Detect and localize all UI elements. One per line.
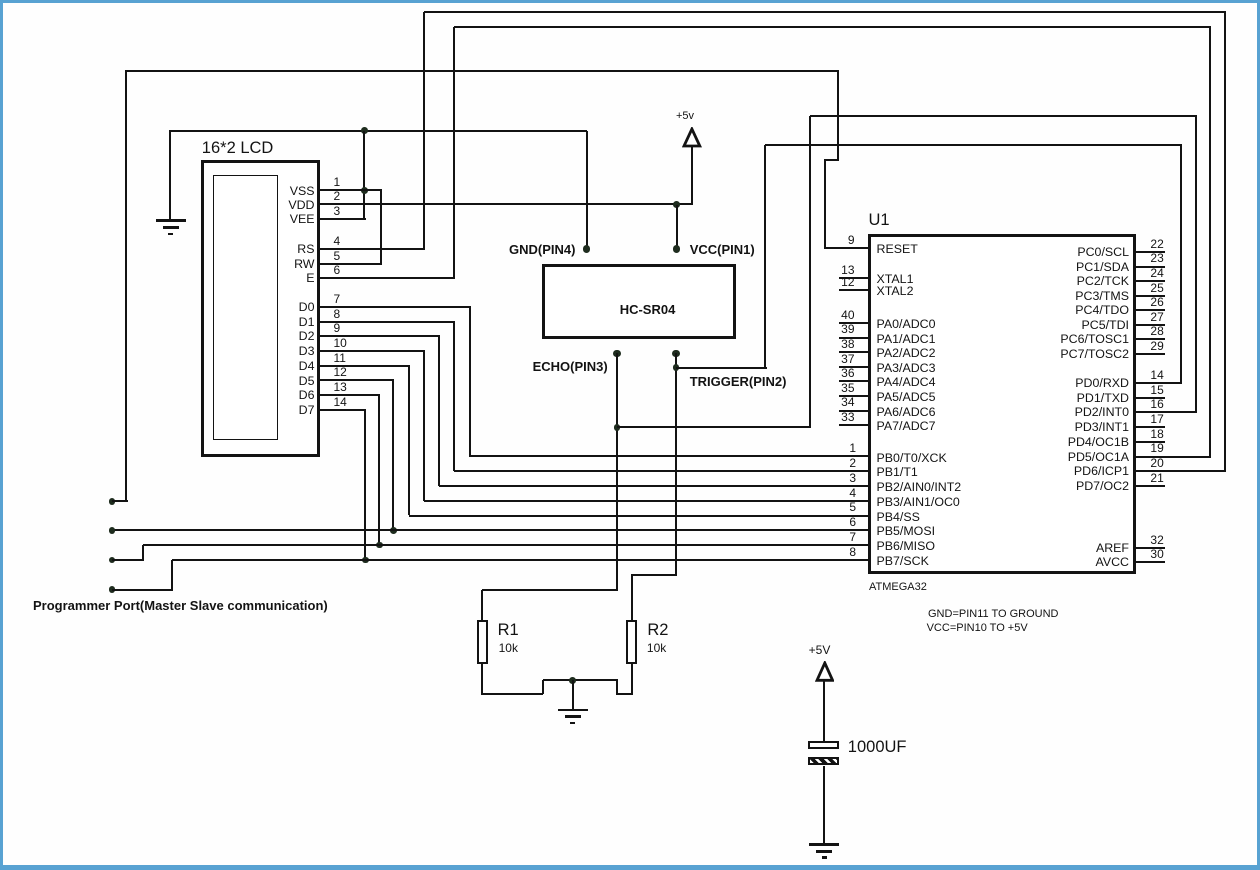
wire +5V stem (823, 681, 826, 741)
LCD pin number 14 (334, 401, 347, 403)
node GND(PIN4) terminal (583, 245, 590, 252)
LCD pin label D2 (299, 335, 315, 337)
wire RESET net top horizontal (125, 70, 838, 73)
wire MISO step up (142, 545, 145, 560)
LCD display window (213, 175, 278, 440)
label Programmer Port (33, 605, 328, 607)
wire SCK step up (171, 560, 174, 590)
pin label PB3/AIN1/OC0 (877, 501, 960, 503)
label TRIGGER(PIN2) (690, 381, 787, 383)
pin number 15 (1150, 389, 1163, 391)
pin number 7 (849, 536, 856, 538)
label HC-SR04 (620, 309, 676, 311)
wire RESET net drop (837, 71, 840, 160)
capacitor 1000UF top plate (808, 741, 840, 749)
wire E vertical up (453, 27, 456, 278)
LCD pin number 12 (334, 371, 347, 373)
pin 34 PA6/ADC6 stub (839, 410, 870, 413)
pin label PA0/ADC0 (877, 323, 936, 325)
LCD pin number 10 (334, 342, 347, 344)
pin label PD3/INT1 (1075, 426, 1129, 428)
wire ECHO to R1 horizontal (482, 589, 618, 592)
value R1 10k (499, 647, 518, 649)
pin label PA3/ADC3 (877, 367, 936, 369)
wire D1 vertical (453, 322, 456, 472)
wire LCD pin 3 VEE stub (320, 218, 365, 221)
LCD pin number 5 (334, 255, 341, 257)
wire ECHO vertical up (809, 116, 812, 427)
LCD pin label D4 (299, 365, 315, 367)
pin number 12 (841, 281, 854, 283)
LCD pin number 8 (334, 313, 341, 315)
wire step down right (616, 680, 619, 695)
wire PB5/MOSI horizontal (112, 529, 870, 532)
wire programmer SCK stub (112, 589, 173, 592)
pin label PA4/ADC4 (877, 381, 936, 383)
LCD pin label D3 (299, 350, 315, 352)
pin label PA1/ADC1 (877, 338, 936, 340)
pin label PC0/SCL (1077, 251, 1129, 253)
pin 25 PC3/TMS stub (1134, 295, 1165, 298)
junction D5 / PB5 (390, 527, 397, 534)
wire right vertical to PD6 (1224, 12, 1227, 471)
pin number 9 (848, 239, 855, 241)
pin number 20 (1150, 462, 1163, 464)
wire R1 bottom lead (481, 664, 484, 695)
pin label PD1/TXD (1077, 397, 1129, 399)
LCD pin number 6 (334, 269, 341, 271)
power symbol +5v arrow head (682, 127, 702, 149)
pin label PB2/AIN0/INT2 (877, 486, 962, 488)
pin number 39 (841, 328, 854, 330)
wire D5 vertical (392, 381, 395, 531)
pin number 26 (1150, 301, 1163, 303)
pin number 23 (1150, 257, 1163, 259)
wire PB6/MISO horizontal (143, 544, 870, 547)
pin label PD6/ICP1 (1074, 470, 1129, 472)
pin label PB6/MISO (877, 545, 936, 547)
pin label XTAL2 (877, 290, 914, 292)
pin 21 PD7/OC2 stub (1134, 485, 1165, 488)
wire PD0/RXD pin 14 (1134, 382, 1182, 385)
capacitor 1000UF bottom plate (polarized) (808, 757, 840, 766)
wire R1 top lead (481, 590, 484, 620)
label ATMEGA32 (869, 586, 927, 588)
pin 26 PC4/TDO stub (1134, 309, 1165, 312)
value R2 10k (647, 647, 666, 649)
wire LCD D2 stub (320, 335, 440, 338)
LCD pin label E (306, 277, 314, 279)
wire LCD D6 stub (320, 394, 380, 397)
microcontroller U1 ATMEGA32 box (868, 234, 1136, 575)
pin label PA7/ADC7 (877, 425, 936, 427)
wire E top horizontal (454, 26, 1212, 29)
pin 37 PA3/ADC3 stub (839, 366, 870, 369)
power symbol +5V arrow head (815, 661, 835, 683)
pin 32 AREF stub (1134, 547, 1165, 550)
wire programmer MISO stub (112, 559, 144, 562)
pin number 6 (849, 521, 856, 523)
pin number 8 (849, 551, 856, 553)
wire D3 vertical (423, 351, 426, 501)
wire LCD pin 4 RS stub (320, 248, 425, 251)
pin number 5 (849, 506, 856, 508)
pin label PA5/ADC5 (877, 396, 936, 398)
LCD pin number 3 (334, 210, 341, 212)
wire TRIGGER vertical up (764, 145, 767, 368)
pin label PC7/TOSC2 (1060, 353, 1129, 355)
LCD pin label D6 (299, 394, 315, 396)
LCD pin number 9 (334, 327, 341, 329)
pin number 34 (841, 401, 854, 403)
pin label PD5/OC1A (1068, 456, 1129, 458)
junction ECHO / PD2 branch (614, 424, 621, 431)
junction programmer port MISO (109, 557, 116, 564)
LCD pin label VEE (290, 218, 315, 220)
resistor R2 body (626, 620, 637, 664)
pin 15 PD1/TXD stub (1134, 397, 1165, 400)
node TRIGGER(PIN2) terminal (672, 350, 679, 357)
pin 28 PC6/TOSC1 stub (1134, 338, 1165, 341)
pin label PC4/TDO (1075, 309, 1129, 311)
node VCC(PIN1) terminal (673, 245, 680, 252)
pin label PB1/T1 (877, 471, 918, 473)
pin label PD0/RXD (1075, 382, 1129, 384)
wire LCD ground horizontal (169, 130, 586, 133)
ground symbol (LCD) (0, 0, 1, 1)
wire right vertical to PD2 (1195, 116, 1198, 412)
wire D4 vertical (408, 366, 411, 516)
label +5v (676, 115, 694, 117)
wire D3 to PB horizontal (424, 500, 870, 503)
label 16*2 LCD (202, 147, 274, 149)
pin number 30 (1150, 553, 1163, 555)
wire VSS to RW vertical (380, 191, 383, 264)
pin 17 PD3/INT1 stub (1134, 426, 1165, 429)
pin 30 AVCC stub (1134, 561, 1165, 564)
pin label PC6/TOSC1 (1060, 338, 1129, 340)
junction TRIGGER / PD0 branch (673, 364, 680, 371)
pin label PA2/ADC2 (877, 352, 936, 354)
wire PB7/SCK horizontal (172, 559, 870, 562)
junction VSS pin 1 (361, 187, 368, 194)
LCD pin label RS (297, 248, 314, 250)
wire LCD D7 stub (320, 409, 366, 412)
wire LCD pin 5 RW stub (320, 263, 382, 266)
wire RESET net lower drop (824, 160, 827, 250)
pin number 37 (841, 358, 854, 360)
pin number 19 (1150, 447, 1163, 449)
pin label PC3/TMS (1075, 295, 1129, 297)
node ECHO(PIN3) terminal (613, 350, 620, 357)
pin number 35 (841, 387, 854, 389)
LCD pin number 7 (334, 298, 341, 300)
wire LCD D3 stub (320, 350, 425, 353)
pin 35 PA5/ADC5 stub (839, 395, 870, 398)
junction programmer port SCK (109, 586, 116, 593)
junction D7 / PB7 (362, 557, 369, 564)
LCD pin label RW (294, 263, 314, 265)
LCD pin label VDD (288, 204, 314, 206)
label +5V (809, 649, 831, 651)
junction programmer port pin (RESET net) (109, 498, 116, 505)
LCD 16*2 module box (201, 160, 321, 457)
wire RS vertical up (423, 12, 426, 249)
pin 29 PC7/TOSC2 stub (1134, 353, 1165, 356)
pin number 13 (841, 269, 854, 271)
junction R1/R2 ground (569, 677, 576, 684)
pin 39 PA1/ADC1 stub (839, 337, 870, 340)
wire D2 vertical (438, 336, 441, 486)
wire D7 vertical (364, 410, 367, 560)
pin label PB4/SS (877, 516, 920, 518)
pin label PD7/OC2 (1076, 485, 1129, 487)
wire TRIGGER top horizontal (765, 144, 1182, 147)
wire R2 top lead (631, 575, 634, 620)
pin number 36 (841, 372, 854, 374)
wire R1 bottom horizontal (481, 693, 542, 696)
pin label PC5/TDI (1081, 324, 1129, 326)
LCD pin label D7 (299, 409, 315, 411)
junction ground / VSS branch (361, 127, 368, 134)
wire RESET net jog (824, 159, 839, 162)
wire PD6/ICP1 pin 20 (1134, 470, 1226, 473)
junction VDD / VCC branch (673, 201, 680, 208)
wire programmer RESET stub (112, 500, 128, 503)
wire +5v arrow stem (691, 147, 694, 205)
wire D6 vertical (378, 395, 381, 545)
pin number 28 (1150, 330, 1163, 332)
sensor HC-SR04 box (542, 264, 735, 339)
pin 36 PA4/ADC4 stub (839, 380, 870, 383)
pin number 2 (849, 462, 856, 464)
LCD pin number 2 (334, 195, 341, 197)
pin number 16 (1150, 403, 1163, 405)
pin label AVCC (1095, 561, 1129, 563)
wire center ground horizontal (543, 679, 619, 682)
pin number 38 (841, 343, 854, 345)
page frame (decorative) (0, 0, 1260, 3)
resistor R1 body (477, 620, 488, 664)
pin number 3 (849, 477, 856, 479)
wire D0 vertical (469, 307, 472, 457)
wire LCD pin 6 E stub (320, 277, 455, 280)
wire PD5/OC1A pin 19 (1134, 456, 1211, 459)
pin label PB7/SCK (877, 560, 929, 562)
pin label RESET (877, 248, 918, 250)
wire ground riser (LCD) (169, 131, 172, 220)
pin number 32 (1150, 539, 1163, 541)
ground symbol (capacitor) (0, 0, 1, 1)
LCD pin label D5 (299, 380, 315, 382)
wire VSS-VEE vertical (363, 131, 366, 219)
pin number 1 (849, 447, 856, 449)
pin label PC2/TCK (1077, 280, 1129, 282)
wire ECHO vertical (616, 353, 619, 591)
pin number 4 (849, 492, 856, 494)
label R1 (498, 629, 519, 631)
pin number 24 (1150, 272, 1163, 274)
pin label PC1/SDA (1076, 266, 1129, 268)
wire down to HC-SR04 GND pin (586, 131, 589, 249)
wire R2 bottom horizontal (617, 693, 633, 696)
LCD pin number 1 (334, 181, 341, 183)
pin number 40 (841, 314, 854, 316)
pin 27 PC5/TDI stub (1134, 324, 1165, 327)
wire step up left (542, 680, 545, 694)
pin 24 PC2/TCK stub (1134, 280, 1165, 283)
label ECHO(PIN3) (533, 366, 608, 368)
wire TRIGGER vertical (675, 353, 678, 576)
wire right vertical to PD5 (1209, 27, 1212, 457)
pin label PB5/MOSI (877, 530, 936, 532)
pin label XTAL1 (877, 278, 914, 280)
label GND(PIN4) (509, 249, 575, 251)
pin label PD2/INT0 (1075, 411, 1129, 413)
wire LCD D0 stub (320, 306, 471, 309)
wire ECHO top horizontal (810, 115, 1197, 118)
wire D4 to PB horizontal (409, 515, 869, 518)
wire LCD D5 stub (320, 379, 394, 382)
wire right vertical to PD0 (1180, 145, 1183, 383)
ground symbol (R1 R2 divider) (0, 0, 1, 1)
junction programmer port MOSI (109, 527, 116, 534)
wire LCD D1 stub (320, 321, 455, 324)
pin 40 PA0/ADC0 stub (839, 322, 870, 325)
junction D6 / PB6 (376, 542, 383, 549)
wire D2 to PB horizontal (439, 485, 870, 488)
pin number 33 (841, 416, 854, 418)
pin number 25 (1150, 287, 1163, 289)
wire TRIGGER branch horizontal (676, 367, 767, 370)
wire D1 to PB horizontal (454, 470, 869, 473)
wire down to HC-SR04 VCC pin (676, 205, 679, 250)
pin label PB0/T0/XCK (877, 457, 947, 459)
wire LCD D4 stub (320, 365, 410, 368)
label R2 (647, 629, 668, 631)
LCD pin label D1 (299, 321, 315, 323)
pin number 27 (1150, 316, 1163, 318)
wire R2 jog horizontal (631, 574, 678, 577)
pin number 29 (1150, 345, 1163, 347)
wire LCD pin 1 VSS stub (320, 189, 382, 192)
wire ECHO branch horizontal (617, 426, 812, 429)
label U1 (869, 219, 890, 221)
wire RESET pin 9 stub (825, 247, 870, 250)
note VCC=PIN10 TO +5V (927, 627, 1028, 629)
wire capacitor to ground (823, 766, 826, 843)
LCD pin number 13 (334, 386, 347, 388)
label VCC(PIN1) (690, 249, 755, 251)
pin number 14 (1150, 374, 1163, 376)
pin 18 PD4/OC1B stub (1134, 441, 1165, 444)
pin number 18 (1150, 433, 1163, 435)
wire RS top horizontal (424, 11, 1226, 14)
wire D0 to PB horizontal (470, 455, 870, 458)
wire R2 bottom lead (631, 664, 634, 694)
note GND=PIN11 TO GROUND (928, 613, 1059, 615)
pin 22 PC0/SCL stub (1134, 251, 1165, 254)
LCD pin label VSS (290, 190, 315, 192)
pin label AREF (1096, 547, 1129, 549)
pin number 22 (1150, 243, 1163, 245)
pin label PD4/OC1B (1068, 441, 1129, 443)
LCD pin number 4 (334, 240, 341, 242)
pin label PA6/ADC6 (877, 411, 936, 413)
wire PD2/INT0 pin 16 (1134, 411, 1197, 414)
LCD pin label D0 (299, 306, 315, 308)
wire RESET net left vertical (125, 70, 128, 501)
pin number 21 (1150, 477, 1163, 479)
wire ground riser (R1 R2) (572, 680, 575, 709)
wire LCD pin 2 VDD to +5v (320, 203, 693, 206)
pin 38 PA2/ADC2 stub (839, 351, 870, 354)
pin 12 XTAL2 stub (839, 289, 870, 292)
pin 33 PA7/ADC7 stub (839, 424, 870, 427)
pin 13 XTAL1 stub (839, 277, 870, 280)
LCD pin number 11 (334, 357, 346, 359)
pin 23 PC1/SDA stub (1134, 266, 1165, 269)
pin number 17 (1150, 418, 1163, 420)
value 1000UF (848, 746, 907, 748)
